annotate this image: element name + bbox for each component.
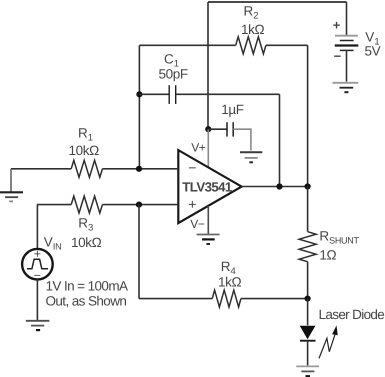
capacitor C1 <box>169 85 176 104</box>
ground (op-amp V-) <box>197 235 220 245</box>
battery V1 <box>333 2 381 82</box>
wire feedback left vertical (R2/C1 to inverting node) <box>138 45 140 169</box>
svg-text:10kΩ: 10kΩ <box>71 235 102 250</box>
svg-text:+: + <box>333 18 341 33</box>
laser diode <box>300 326 316 366</box>
svg-text:Out, as Shown: Out, as Shown <box>46 293 127 308</box>
svg-text:R2: R2 <box>244 4 259 22</box>
op-amp U1 TLV3541 <box>178 150 241 223</box>
node inverting junction dot <box>136 166 142 172</box>
svg-text:1Ω: 1Ω <box>319 248 336 263</box>
wire V- stub <box>207 206 209 235</box>
svg-text:V−: V− <box>190 217 205 231</box>
wire V+ supply vertical <box>207 2 209 129</box>
wire VIN to R3 <box>36 205 38 250</box>
source VIN pulse generator <box>22 247 53 282</box>
wire C1 feedback vertical <box>279 94 281 186</box>
wire C1 left <box>139 93 169 95</box>
ground (VIN) <box>26 321 50 330</box>
wire R4 right <box>241 298 308 300</box>
svg-text:1µF: 1µF <box>221 102 243 117</box>
resistor R1 <box>71 160 102 177</box>
svg-text:+: + <box>188 196 196 212</box>
svg-text:R3: R3 <box>78 215 93 233</box>
wire laser anode <box>307 299 309 326</box>
svg-text:1V In = 100mA: 1V In = 100mA <box>46 279 128 294</box>
wire C1 right <box>176 93 280 95</box>
node output/R2 junction dot <box>305 183 311 189</box>
ground (battery) <box>333 83 359 92</box>
svg-text:5V: 5V <box>365 44 381 59</box>
wire left ground drop <box>10 169 12 192</box>
wire op-amp output <box>242 186 308 188</box>
svg-text:VIN: VIN <box>44 235 62 252</box>
laser emission arrow <box>319 325 338 358</box>
wire R_SHUNT bottom <box>307 262 309 299</box>
resistor R3 <box>71 196 102 213</box>
wire R4 left <box>139 298 212 300</box>
wire noninverting input row right <box>102 204 178 206</box>
ground (left input) <box>0 192 23 201</box>
wire R2 left <box>139 44 235 46</box>
svg-text:RSHUNT: RSHUNT <box>319 228 359 245</box>
node C1 left junction dot <box>136 91 142 97</box>
svg-text:V+: V+ <box>191 140 206 154</box>
svg-text:Laser Diode: Laser Diode <box>319 307 385 322</box>
node V+ junction dot <box>205 126 211 132</box>
svg-text:−: − <box>334 48 342 63</box>
wire R2 right <box>266 44 308 46</box>
wire noninverting feedback vertical <box>138 205 140 299</box>
svg-text:1kΩ: 1kΩ <box>241 22 264 37</box>
svg-text:TLV3541: TLV3541 <box>182 179 232 194</box>
resistor R2 <box>236 37 266 54</box>
node R4/laser junction dot <box>305 296 311 302</box>
ground (laser diode) <box>296 366 319 376</box>
svg-text:50pF: 50pF <box>159 66 188 81</box>
svg-text:10kΩ: 10kΩ <box>69 143 100 158</box>
wire noninverting input row <box>37 204 71 206</box>
node noninverting junction dot <box>136 202 142 208</box>
ground (1uF decoupling) <box>240 152 262 162</box>
node output/C1 junction dot <box>276 183 282 189</box>
resistor R_SHUNT <box>299 232 316 262</box>
wire V+ stub (gray) <box>207 129 209 167</box>
svg-text:R1: R1 <box>78 125 93 143</box>
wire VIN to ground <box>36 279 38 320</box>
wire inverting input row right <box>102 168 178 170</box>
resistor R4 <box>212 290 241 307</box>
svg-text:1kΩ: 1kΩ <box>218 275 241 290</box>
wire inverting input row <box>11 168 71 170</box>
wire R2 feedback vertical <box>307 45 309 186</box>
svg-text:−: − <box>188 159 196 175</box>
capacitor 1uF <box>208 102 251 151</box>
wire top supply rail <box>208 1 347 3</box>
wire R_SHUNT top <box>307 187 309 232</box>
